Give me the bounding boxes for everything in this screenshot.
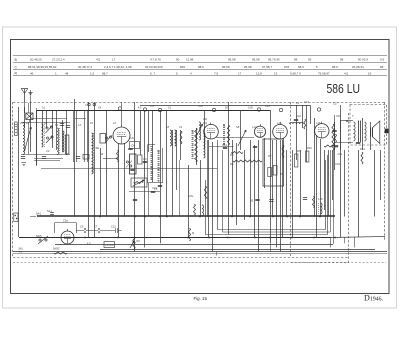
svg-text:C10: C10 — [152, 186, 157, 190]
svg-text:90: 90 — [176, 58, 180, 62]
svg-text:L4: L4 — [78, 123, 81, 127]
svg-text:R14: R14 — [360, 147, 365, 151]
svg-text:R: R — [192, 231, 194, 235]
svg-text:L8: L8 — [166, 125, 169, 129]
svg-text:C3a: C3a — [63, 219, 68, 223]
svg-text:C14: C14 — [222, 143, 227, 147]
svg-text:L18: L18 — [318, 197, 323, 201]
svg-text:92,94,98,200: 92,94,98,200 — [145, 65, 163, 69]
svg-text:95,98: 95,98 — [252, 58, 260, 62]
svg-text:75,98,97: 75,98,97 — [318, 71, 330, 75]
svg-text:90 95 9: 90 95 9 — [358, 58, 368, 62]
svg-text:5A/1: 5A/1 — [36, 213, 42, 216]
svg-text:98,7: 98,7 — [102, 71, 108, 75]
svg-text:Ch: Ch — [131, 144, 135, 148]
svg-text:C9: C9 — [143, 157, 147, 161]
svg-text:C17: C17 — [304, 100, 309, 104]
svg-text:5,0/1000: 5,0/1000 — [105, 245, 114, 247]
svg-text:S3: S3 — [100, 152, 104, 156]
svg-text:C11: C11 — [198, 104, 203, 108]
svg-text:R10: R10 — [307, 146, 312, 150]
svg-text:4,5: 4,5 — [96, 58, 101, 62]
svg-text:L16: L16 — [316, 121, 321, 125]
svg-text:20,48,25: 20,48,25 — [30, 58, 42, 62]
svg-text:S1: S1 — [44, 121, 48, 125]
svg-text:C17: C17 — [333, 103, 338, 106]
svg-text:4,7,8,76: 4,7,8,76 — [150, 58, 161, 62]
svg-text:9,98,7 9: 9,98,7 9 — [290, 71, 301, 75]
svg-text:98,6: 98,6 — [332, 65, 338, 69]
svg-text:98: 98 — [294, 58, 298, 62]
svg-text:L2: L2 — [26, 121, 29, 125]
svg-text:95,76,95: 95,76,95 — [268, 58, 280, 62]
svg-text:1,5: 1,5 — [90, 71, 95, 75]
svg-text:4,5v: 4,5v — [188, 194, 194, 198]
svg-text:P2: P2 — [137, 239, 141, 243]
svg-text:4,5: 4,5 — [344, 71, 349, 75]
svg-text:L9: L9 — [179, 125, 182, 129]
svg-text:Fig. 15: Fig. 15 — [194, 296, 208, 301]
svg-text:48: 48 — [65, 71, 69, 75]
svg-text:S4,1: S4,1 — [47, 210, 53, 213]
svg-text:S6: S6 — [96, 146, 100, 150]
svg-text:820: 820 — [180, 65, 185, 69]
svg-text:C19: C19 — [336, 114, 341, 118]
svg-text:96,99: 96,99 — [222, 65, 230, 69]
svg-text:C7: C7 — [94, 225, 98, 229]
svg-text:R5: R5 — [230, 153, 234, 157]
svg-text:L1: L1 — [20, 121, 23, 125]
svg-text:L12: L12 — [203, 118, 208, 121]
svg-text:88,91,98,98,95,55,92: 88,91,98,98,95,55,92 — [28, 65, 57, 69]
svg-text:L11: L11 — [203, 121, 208, 125]
svg-text:L5: L5 — [90, 121, 93, 125]
svg-text:12,8: 12,8 — [256, 71, 262, 75]
svg-text:S2: S2 — [55, 123, 59, 127]
svg-text:98 9: 98 9 — [298, 65, 304, 69]
svg-text:C5: C5 — [80, 225, 84, 229]
svg-text:95,98: 95,98 — [228, 58, 236, 62]
svg-text:C19: C19 — [335, 162, 340, 166]
svg-text:C8: C8 — [130, 136, 134, 140]
svg-text:27,23,2,4: 27,23,2,4 — [52, 58, 65, 62]
svg-text:978: 978 — [284, 65, 289, 69]
svg-text:R12: R12 — [333, 145, 338, 149]
svg-text:2,4,5,7 1,98,42, 4,98: 2,4,5,7 1,98,42, 4,98 — [104, 65, 132, 69]
svg-text:C3: C3 — [85, 103, 89, 107]
svg-text:5A1: 5A1 — [19, 248, 24, 251]
svg-text:C3a: C3a — [338, 153, 343, 156]
svg-text:5A/5C: 5A/5C — [53, 248, 60, 251]
svg-text:0,05: 0,05 — [248, 107, 253, 110]
svg-text:98: 98 — [340, 58, 344, 62]
svg-text:97,98,7: 97,98,7 — [262, 65, 272, 69]
svg-text:C6: C6 — [150, 104, 154, 108]
svg-text:30,48,77,2: 30,48,77,2 — [78, 65, 93, 69]
svg-text:L6: L6 — [113, 121, 116, 125]
svg-text:586 LU: 586 LU — [327, 81, 361, 96]
svg-text:S8: S8 — [236, 125, 240, 129]
svg-text:R9: R9 — [297, 149, 301, 153]
svg-text:98,6: 98,6 — [198, 65, 204, 69]
svg-text:17: 17 — [238, 71, 242, 75]
svg-text:15: 15 — [368, 71, 372, 75]
svg-text:46: 46 — [30, 71, 34, 75]
svg-text:13: 13 — [274, 71, 278, 75]
svg-text:C16: C16 — [296, 114, 301, 118]
svg-text:9,5: 9,5 — [380, 58, 385, 62]
svg-text:L13: L13 — [252, 125, 257, 129]
svg-text:98: 98 — [380, 65, 384, 69]
svg-text:C12: C12 — [111, 225, 116, 229]
svg-text:S4/5: S4/5 — [36, 234, 42, 238]
svg-text:20,98,34,: 20,98,34, — [352, 65, 365, 69]
svg-text:17: 17 — [112, 58, 116, 62]
svg-text:11,98: 11,98 — [186, 58, 194, 62]
svg-text:L15: L15 — [277, 121, 282, 125]
svg-text:C15: C15 — [265, 104, 270, 108]
svg-text:R6: R6 — [230, 162, 234, 166]
svg-text:25,98: 25,98 — [244, 65, 252, 69]
svg-text:7,9: 7,9 — [214, 71, 219, 75]
svg-text:6, 7,: 6, 7, — [150, 71, 156, 75]
svg-text:R7: R7 — [268, 154, 272, 158]
svg-text:95: 95 — [308, 58, 312, 62]
svg-text:C2: C2 — [46, 149, 50, 153]
